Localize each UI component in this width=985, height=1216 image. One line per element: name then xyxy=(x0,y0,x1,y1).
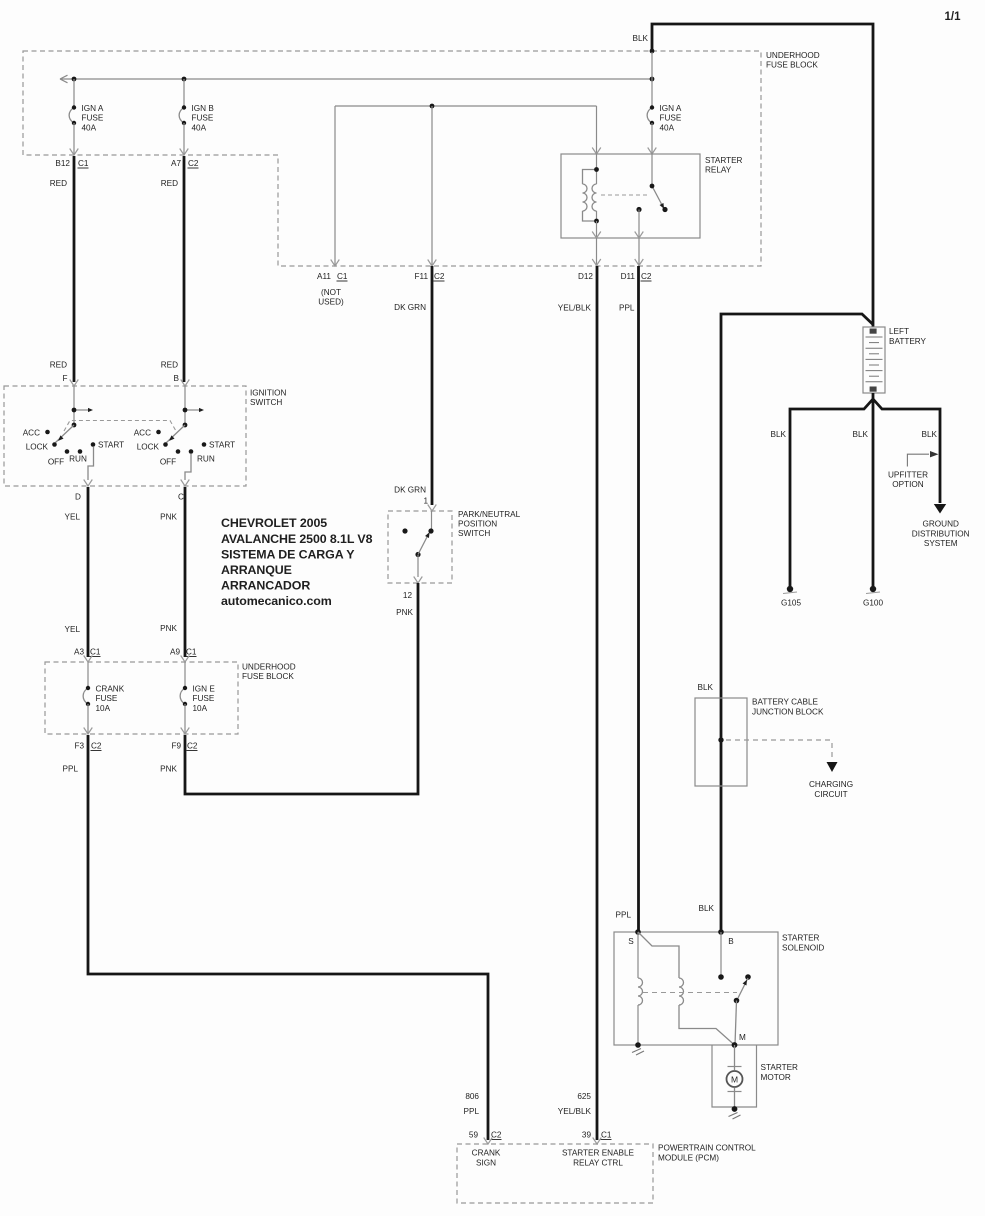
svg-text:JUNCTION BLOCK: JUNCTION BLOCK xyxy=(752,707,824,716)
svg-text:625: 625 xyxy=(577,1092,591,1101)
svg-text:C2: C2 xyxy=(188,159,199,168)
svg-text:C2: C2 xyxy=(434,272,445,281)
svg-text:C2: C2 xyxy=(187,742,198,751)
svg-text:ARRANCADOR: ARRANCADOR xyxy=(221,579,310,593)
svg-text:GROUND: GROUND xyxy=(923,519,959,528)
svg-text:G100: G100 xyxy=(863,599,883,608)
svg-text:PPL: PPL xyxy=(63,765,79,774)
svg-text:C1: C1 xyxy=(78,159,89,168)
svg-text:IGN B: IGN B xyxy=(192,104,215,113)
svg-text:A3: A3 xyxy=(74,648,84,657)
svg-text:12: 12 xyxy=(403,591,413,600)
svg-text:OFF: OFF xyxy=(48,457,64,466)
svg-text:M: M xyxy=(739,1033,746,1042)
svg-text:CIRCUIT: CIRCUIT xyxy=(814,790,847,799)
svg-text:C2: C2 xyxy=(491,1131,502,1140)
svg-text:40A: 40A xyxy=(192,123,207,132)
svg-text:S: S xyxy=(628,937,634,946)
svg-text:OPTION: OPTION xyxy=(892,480,923,489)
svg-text:PNK: PNK xyxy=(160,624,177,633)
svg-text:PNK: PNK xyxy=(160,513,177,522)
svg-text:RED: RED xyxy=(161,361,178,370)
svg-text:START: START xyxy=(209,440,235,449)
svg-text:USED): USED) xyxy=(318,298,344,307)
svg-text:C: C xyxy=(178,492,184,501)
svg-text:automecanico.com: automecanico.com xyxy=(221,594,332,608)
svg-text:BATTERY: BATTERY xyxy=(889,337,927,346)
svg-text:F3: F3 xyxy=(74,742,84,751)
svg-text:40A: 40A xyxy=(660,123,675,132)
svg-text:10A: 10A xyxy=(193,704,208,713)
svg-text:CRANK: CRANK xyxy=(472,1149,501,1158)
svg-text:POSITION: POSITION xyxy=(458,520,497,529)
svg-text:RED: RED xyxy=(50,179,67,188)
svg-text:BLK: BLK xyxy=(771,430,787,439)
svg-text:CHARGING: CHARGING xyxy=(809,780,853,789)
svg-text:OFF: OFF xyxy=(160,457,176,466)
svg-text:D: D xyxy=(75,492,81,501)
svg-text:PPL: PPL xyxy=(619,304,635,313)
svg-text:MOTOR: MOTOR xyxy=(761,1073,791,1082)
svg-text:PNK: PNK xyxy=(396,608,413,617)
svg-text:G105: G105 xyxy=(781,599,801,608)
svg-text:CRANK: CRANK xyxy=(96,685,125,694)
svg-text:F9: F9 xyxy=(171,742,181,751)
svg-text:STARTER: STARTER xyxy=(782,934,820,943)
svg-text:1/1: 1/1 xyxy=(945,11,962,23)
svg-text:LEFT: LEFT xyxy=(889,327,909,336)
svg-text:YEL: YEL xyxy=(65,625,81,634)
svg-text:BATTERY CABLE: BATTERY CABLE xyxy=(752,698,819,707)
svg-text:STARTER: STARTER xyxy=(761,1063,799,1072)
svg-text:CHEVROLET 2005: CHEVROLET 2005 xyxy=(221,516,327,530)
svg-text:D12: D12 xyxy=(578,272,593,281)
svg-text:B: B xyxy=(174,374,180,383)
svg-text:DK GRN: DK GRN xyxy=(394,303,426,312)
svg-text:UPFITTER: UPFITTER xyxy=(888,470,928,479)
svg-text:STARTER ENABLE: STARTER ENABLE xyxy=(562,1149,635,1158)
svg-text:A11: A11 xyxy=(317,272,331,281)
svg-text:DK GRN: DK GRN xyxy=(394,486,426,495)
svg-text:F11: F11 xyxy=(415,272,429,281)
svg-text:806: 806 xyxy=(465,1092,479,1101)
svg-text:ARRANQUE: ARRANQUE xyxy=(221,563,292,577)
svg-text:59: 59 xyxy=(469,1131,479,1140)
svg-text:SIGN: SIGN xyxy=(476,1158,496,1167)
svg-text:F: F xyxy=(62,374,67,383)
svg-text:UNDERHOOD: UNDERHOOD xyxy=(242,663,296,672)
svg-text:RUN: RUN xyxy=(69,454,87,463)
svg-text:B: B xyxy=(728,937,734,946)
svg-text:C1: C1 xyxy=(90,648,101,657)
svg-text:ACC: ACC xyxy=(23,428,40,437)
svg-text:LOCK: LOCK xyxy=(26,442,49,451)
svg-text:PARK/NEUTRAL: PARK/NEUTRAL xyxy=(458,510,521,519)
svg-text:(NOT: (NOT xyxy=(321,288,341,297)
svg-text:AVALANCHE 2500 8.1L V8: AVALANCHE 2500 8.1L V8 xyxy=(221,532,373,546)
svg-text:START: START xyxy=(98,440,124,449)
svg-text:C2: C2 xyxy=(91,742,102,751)
svg-text:BLK: BLK xyxy=(922,430,938,439)
svg-text:IGNITION: IGNITION xyxy=(250,389,286,398)
svg-text:C1: C1 xyxy=(601,1131,612,1140)
svg-text:YEL/BLK: YEL/BLK xyxy=(558,304,592,313)
svg-text:STARTER: STARTER xyxy=(705,156,743,165)
svg-text:C2: C2 xyxy=(641,272,652,281)
svg-text:RELAY CTRL: RELAY CTRL xyxy=(573,1158,623,1167)
svg-text:LOCK: LOCK xyxy=(137,442,160,451)
svg-text:FUSE: FUSE xyxy=(96,694,118,703)
svg-text:DISTRIBUTION: DISTRIBUTION xyxy=(912,529,970,538)
svg-text:A7: A7 xyxy=(171,159,181,168)
svg-text:PPL: PPL xyxy=(616,911,632,920)
svg-text:10A: 10A xyxy=(96,704,111,713)
svg-text:BLK: BLK xyxy=(633,34,649,43)
svg-text:PNK: PNK xyxy=(160,765,177,774)
svg-text:M: M xyxy=(731,1074,738,1084)
svg-text:SOLENOID: SOLENOID xyxy=(782,943,824,952)
svg-text:FUSE: FUSE xyxy=(192,114,214,123)
svg-text:IGN A: IGN A xyxy=(82,104,104,113)
svg-text:YEL/BLK: YEL/BLK xyxy=(558,1107,592,1116)
svg-text:RED: RED xyxy=(161,179,178,188)
svg-text:RELAY: RELAY xyxy=(705,166,732,175)
svg-text:C1: C1 xyxy=(337,272,348,281)
svg-text:RED: RED xyxy=(50,361,67,370)
svg-text:1: 1 xyxy=(423,497,428,506)
svg-text:BLK: BLK xyxy=(699,904,715,913)
svg-text:FUSE: FUSE xyxy=(193,694,215,703)
svg-text:BLK: BLK xyxy=(698,683,714,692)
svg-text:FUSE: FUSE xyxy=(82,114,104,123)
svg-text:IGN E: IGN E xyxy=(193,685,216,694)
svg-text:IGN A: IGN A xyxy=(660,104,682,113)
svg-text:D11: D11 xyxy=(621,272,636,281)
svg-text:39: 39 xyxy=(582,1131,592,1140)
svg-text:PPL: PPL xyxy=(464,1107,480,1116)
svg-text:A9: A9 xyxy=(170,648,180,657)
svg-text:POWERTRAIN CONTROL: POWERTRAIN CONTROL xyxy=(658,1144,756,1153)
svg-text:SISTEMA DE CARGA Y: SISTEMA DE CARGA Y xyxy=(221,548,355,562)
svg-text:FUSE: FUSE xyxy=(660,114,682,123)
svg-text:C1: C1 xyxy=(186,648,197,657)
svg-text:RUN: RUN xyxy=(197,454,215,463)
svg-text:MODULE (PCM): MODULE (PCM) xyxy=(658,1153,719,1162)
svg-text:ACC: ACC xyxy=(134,428,151,437)
svg-text:B12: B12 xyxy=(55,159,70,168)
svg-text:UNDERHOOD: UNDERHOOD xyxy=(766,51,820,60)
svg-text:YEL: YEL xyxy=(65,513,81,522)
svg-text:SWITCH: SWITCH xyxy=(250,398,282,407)
svg-text:FUSE BLOCK: FUSE BLOCK xyxy=(242,672,294,681)
svg-text:FUSE BLOCK: FUSE BLOCK xyxy=(766,61,818,70)
svg-text:SYSTEM: SYSTEM xyxy=(924,539,958,548)
svg-text:40A: 40A xyxy=(82,123,97,132)
svg-text:BLK: BLK xyxy=(853,430,869,439)
svg-text:SWITCH: SWITCH xyxy=(458,529,490,538)
